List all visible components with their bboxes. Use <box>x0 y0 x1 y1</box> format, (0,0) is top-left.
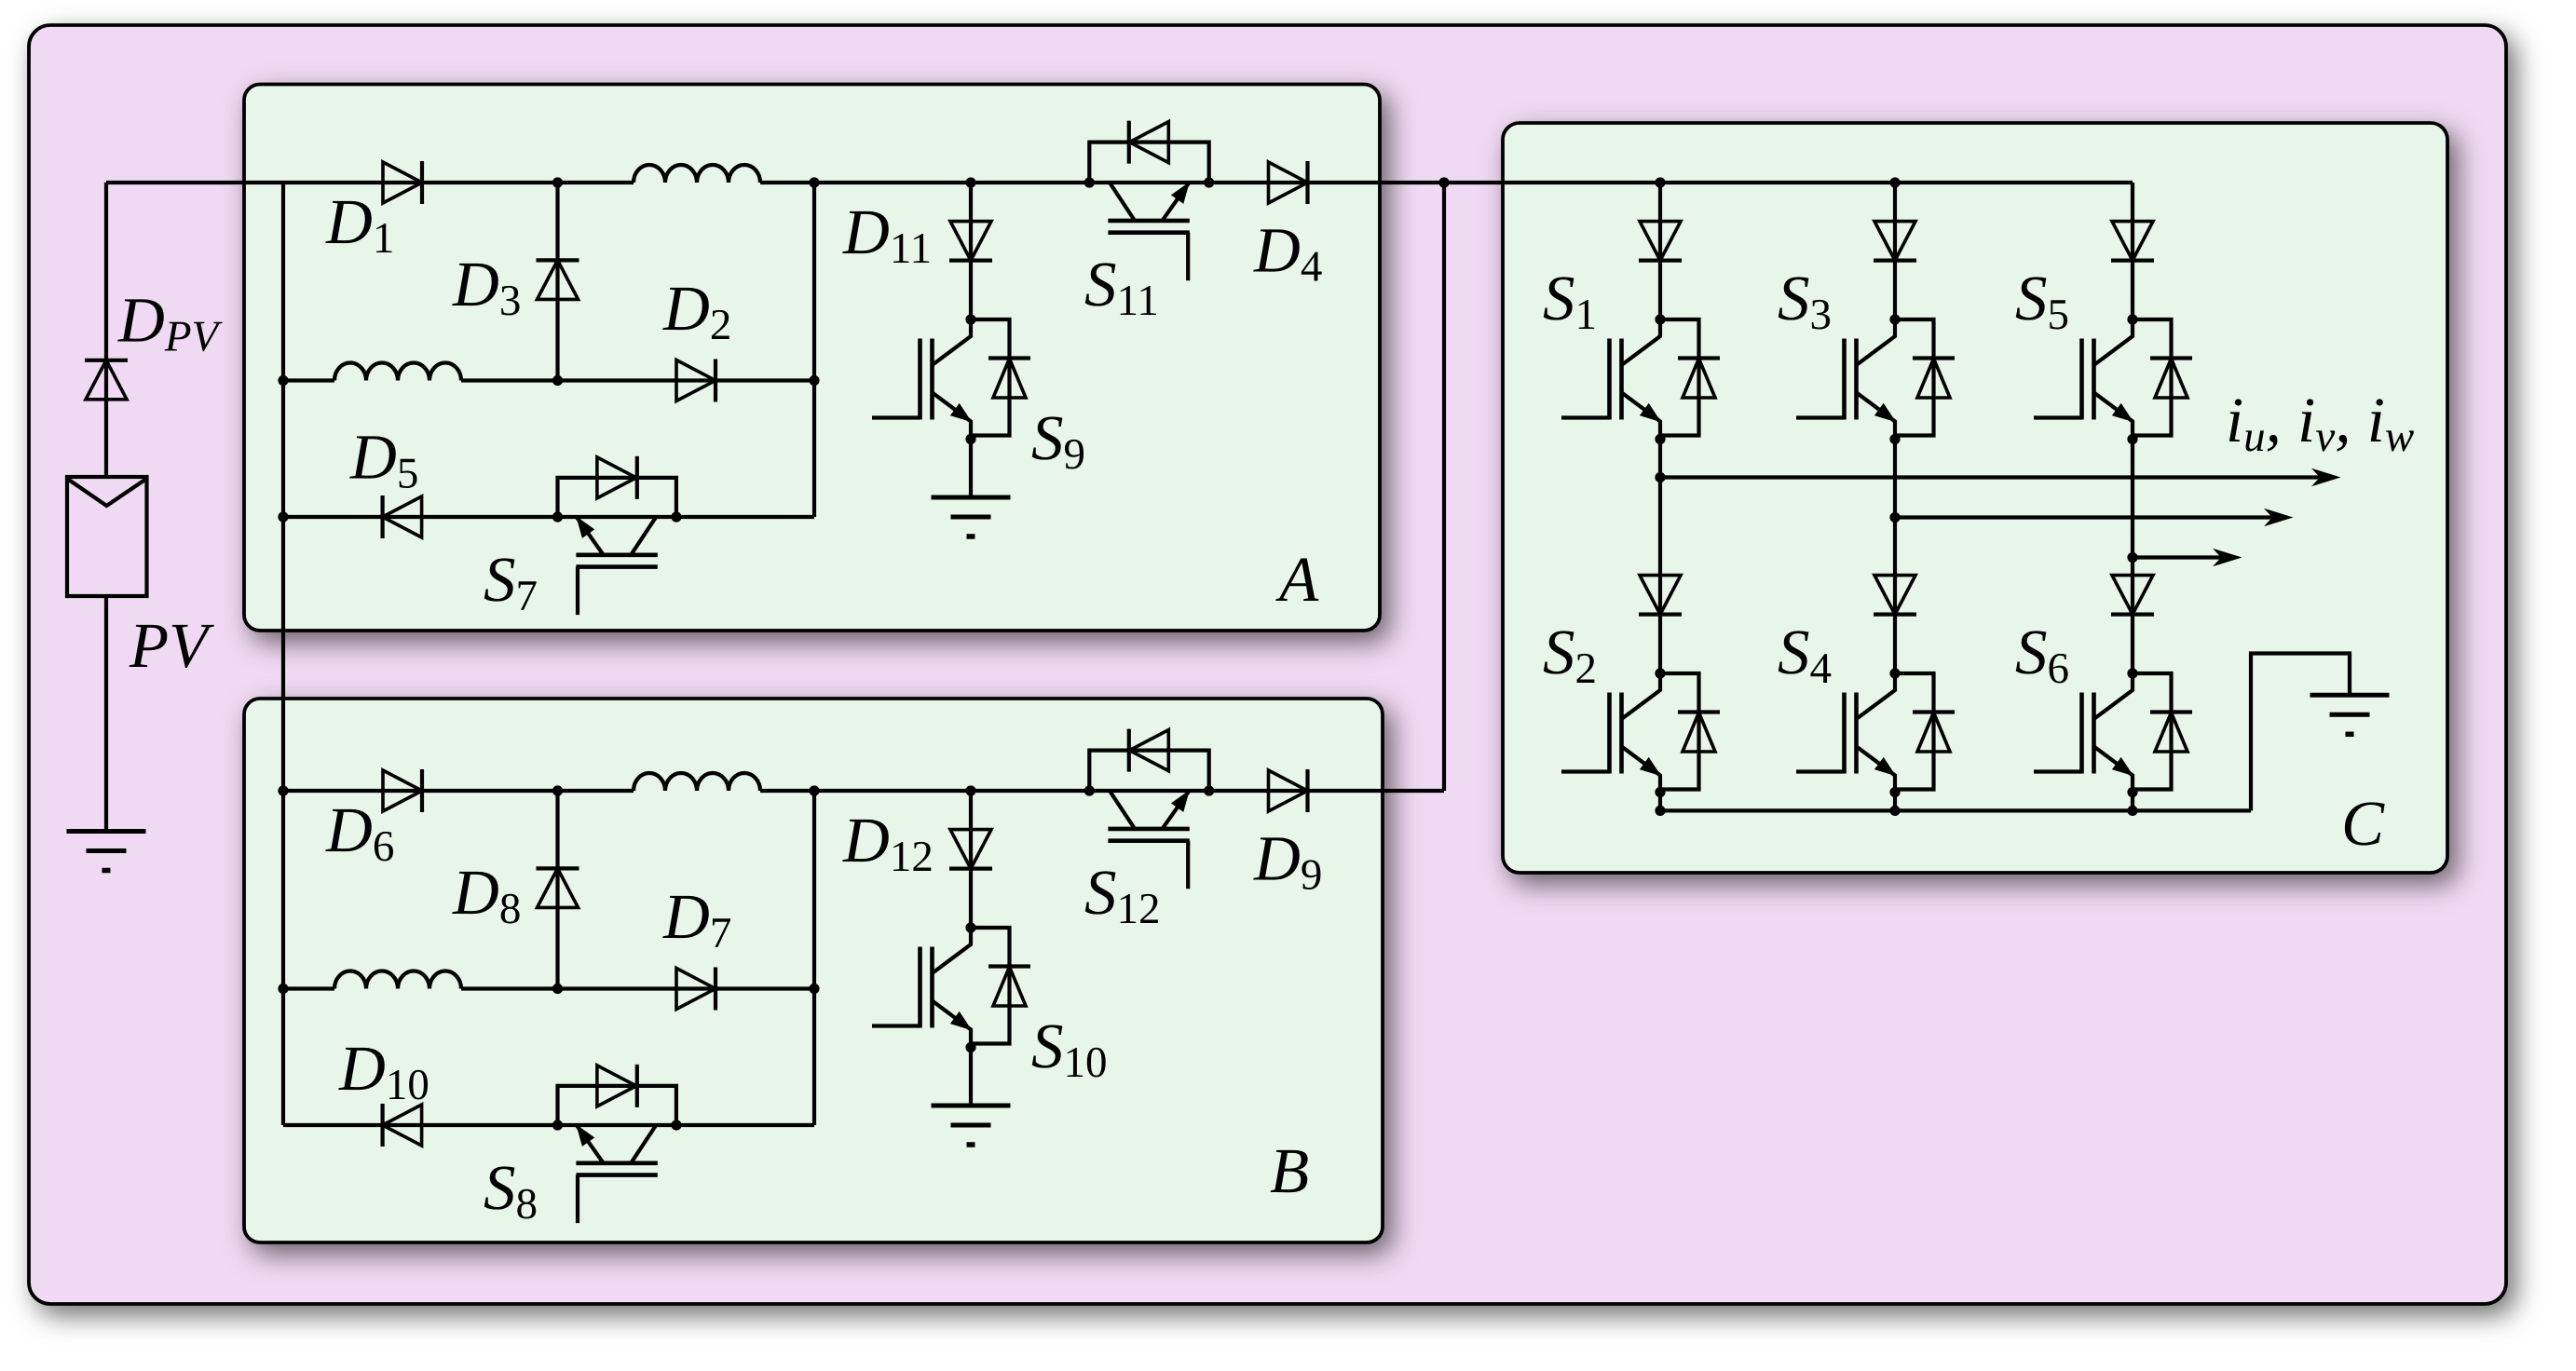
node C top leg1 <box>1655 177 1665 187</box>
node C top leg2 <box>1889 177 1900 187</box>
node S3 emitter <box>1889 434 1900 444</box>
wire: PV branch lower segment to ground <box>104 596 108 832</box>
wire: A right vertical x874 <box>812 183 816 517</box>
diode D1 <box>383 161 422 204</box>
series diode leg2 bottom <box>1874 576 1916 615</box>
wire: C leg2 middle <box>1893 440 1897 674</box>
transistor S7 <box>558 456 676 615</box>
node S6 emitter <box>2127 787 2137 797</box>
transistor S4 <box>1796 673 1955 793</box>
series diode leg1 top <box>1639 222 1682 261</box>
wire: output line u <box>1660 475 2322 479</box>
svg-text:PV: PV <box>129 610 214 681</box>
wire: junction vertical to top rail <box>1442 183 1446 791</box>
converter block B box <box>244 699 1383 1242</box>
node bottom rail leg2 <box>1889 806 1900 816</box>
node S9 emitter <box>965 434 975 444</box>
wire: long left vertical linking A and B rails <box>281 183 285 1125</box>
node rail2B right <box>809 984 819 994</box>
wire: C ground link <box>2251 654 2350 811</box>
inductor L1 top rail A <box>634 165 760 183</box>
node rail3A left <box>278 511 288 522</box>
node rail2A right <box>809 375 819 386</box>
node S11 left <box>1084 177 1095 187</box>
node S2 collector <box>1655 668 1665 678</box>
node rail2B D8 <box>552 984 563 994</box>
wire: B top rail <box>283 789 634 793</box>
transistor S1 <box>1561 319 1720 439</box>
node bottom rail leg1 <box>1655 806 1665 816</box>
wire: C leg2 lower <box>1893 793 1897 811</box>
node S6 collector <box>2127 668 2137 678</box>
arrow head output w <box>2213 549 2242 567</box>
series diode leg1 bottom <box>1639 576 1682 615</box>
wire: C leg2 upper <box>1893 183 1897 319</box>
inductor L2 second rail A <box>334 363 461 381</box>
node S5 emitter <box>2127 434 2137 444</box>
series diode leg3 bottom <box>2111 576 2154 615</box>
wire: C leg1 lower <box>1658 793 1662 811</box>
diode D10 <box>383 1104 422 1147</box>
diode D7 <box>676 968 716 1011</box>
wire: C leg1 upper <box>1658 183 1662 319</box>
transistor S6 <box>2034 673 2192 793</box>
node output u <box>1655 472 1665 482</box>
diode D11 <box>949 222 992 261</box>
wire: B third rail <box>283 1123 814 1127</box>
node D12 top <box>965 785 975 795</box>
wire: C bottom rail <box>1660 808 2251 812</box>
node rail2A left <box>278 375 288 386</box>
inverter block C box <box>1503 123 2447 873</box>
transistor S3 <box>1796 319 1955 439</box>
wire: B second rail <box>283 986 334 990</box>
node D1-D3 top <box>552 177 563 187</box>
node output v <box>1889 512 1900 523</box>
diode D12 <box>949 830 992 869</box>
node S8 left <box>552 1120 563 1130</box>
transistor S8 <box>558 1065 676 1223</box>
node S4 collector <box>1889 668 1900 678</box>
ground PV <box>67 832 146 871</box>
ground S10 <box>932 1106 1011 1145</box>
wire: D3 branch <box>555 183 559 381</box>
node x874 B rail <box>809 785 819 795</box>
node railB left <box>278 785 288 795</box>
series diode leg2 top <box>1874 222 1916 261</box>
node x874 top rail <box>809 177 819 187</box>
node D11 top <box>965 177 975 187</box>
diode D4 <box>1269 161 1308 204</box>
node S11 right <box>1204 177 1214 187</box>
wire: D8 branch <box>555 791 559 989</box>
wire: C leg1 middle <box>1658 440 1662 674</box>
wire: D12 branch down to S10 <box>969 791 973 928</box>
node S2 emitter <box>1655 787 1665 797</box>
svg-text:B: B <box>1270 1135 1309 1206</box>
node S3 collector <box>1889 314 1900 324</box>
node S12 right <box>1204 785 1214 795</box>
wire: S10 emitter to ground <box>969 1048 973 1106</box>
inductor L2 second rail B <box>334 971 461 989</box>
diode D3 <box>537 260 579 299</box>
node S10 collector <box>965 922 975 932</box>
node S1 collector <box>1655 314 1665 324</box>
series diode leg3 top <box>2111 222 2154 261</box>
arrow head output v <box>2264 509 2294 527</box>
inductor L1 top rail B <box>634 773 760 791</box>
arrow head output u <box>2311 468 2341 487</box>
node junction 1545 <box>1438 177 1449 187</box>
ground S9 <box>932 497 1011 536</box>
wire: output line v <box>1895 515 2274 519</box>
node S4 emitter <box>1889 787 1900 797</box>
node S7 left <box>552 511 563 522</box>
converter block A box <box>244 85 1380 631</box>
diode D6 <box>383 769 422 812</box>
node S12 left <box>1084 785 1095 795</box>
diode D_PV <box>85 360 128 400</box>
node S10 emitter <box>965 1042 975 1052</box>
transistor S10 <box>872 928 1030 1047</box>
svg-text:C: C <box>2341 788 2385 859</box>
node S5 collector <box>2127 314 2137 324</box>
diode D8 <box>537 868 579 907</box>
node D6-D8 top <box>552 785 563 795</box>
wire: A second rail <box>283 378 334 382</box>
transistor S11 <box>1089 121 1208 281</box>
wire: C leg3 lower <box>2131 793 2134 811</box>
wire: PV branch upper segment <box>104 183 108 477</box>
wire: D11 branch down to S9 <box>969 183 973 319</box>
node output w <box>2127 552 2137 563</box>
node rail2B left <box>278 984 288 994</box>
wire: A third rail <box>283 515 814 519</box>
wire: B right vertical x874 <box>812 791 816 1125</box>
node S1 emitter <box>1655 434 1665 444</box>
node bottom rail leg3 <box>2127 806 2137 816</box>
wire: output line w <box>2133 555 2223 559</box>
node rail2A D3 <box>552 375 563 386</box>
wire: top DC rail from PV node across A into C <box>106 181 634 184</box>
transistor S5 <box>2034 319 2192 439</box>
node S7 right <box>671 511 681 522</box>
transistor S9 <box>872 319 1030 439</box>
transistor S12 <box>1089 729 1208 889</box>
transistor S2 <box>1561 673 1720 793</box>
diode D2 <box>676 360 716 402</box>
diode D9 <box>1269 769 1308 812</box>
wire: C leg3 middle <box>2131 440 2134 674</box>
wire: S9 emitter to ground <box>969 440 973 498</box>
node S8 right <box>671 1120 681 1130</box>
PV panel source <box>67 477 147 596</box>
diode D5 <box>383 495 422 538</box>
node S9 collector <box>965 314 975 324</box>
svg-text:A: A <box>1275 544 1319 615</box>
ground C <box>2310 695 2390 734</box>
wire: C leg3 upper <box>2131 183 2134 319</box>
